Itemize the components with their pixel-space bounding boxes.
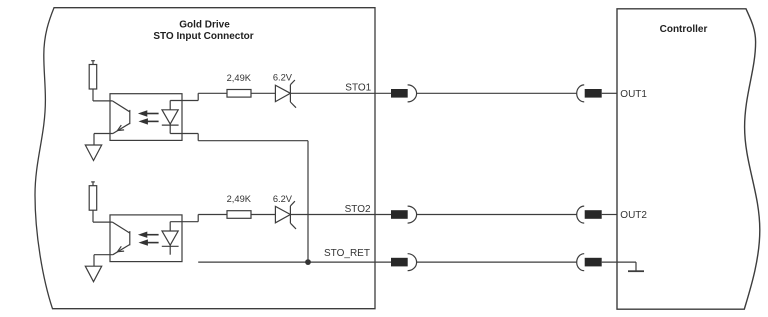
connector socket row 1 (right) bbox=[577, 85, 602, 102]
wire into controller OUT1 bbox=[602, 92, 617, 94]
wire cable row 3 bbox=[416, 261, 577, 263]
svg-text:Controller: Controller bbox=[660, 24, 708, 35]
connector pin plug row 3 (left) bbox=[391, 254, 417, 271]
LED D1 (inside U1) bbox=[162, 101, 179, 134]
wire cable row 2 bbox=[416, 214, 577, 216]
wire D1 anode to STO1 line bbox=[170, 93, 198, 100]
zener diode 6.2V (channel 2) bbox=[275, 201, 296, 229]
ground symbol in controller bbox=[628, 270, 644, 272]
wire cable row 1 bbox=[416, 92, 577, 94]
svg-text:6.2V: 6.2V bbox=[273, 194, 293, 204]
wire U1 emitter to ground arrow bbox=[94, 134, 113, 146]
svg-text:STO Input Connector: STO Input Connector bbox=[153, 31, 253, 42]
svg-text:STO2: STO2 bbox=[345, 204, 371, 215]
zener diode 6.2V (channel 1) bbox=[275, 80, 296, 108]
title Gold Drive STO Input Connector bbox=[153, 19, 253, 42]
wire D2 anode to STO2 line bbox=[170, 215, 198, 222]
wire U2 emitter to ground arrow bbox=[94, 255, 113, 267]
LED D2 (inside U2) bbox=[162, 222, 179, 255]
title Controller bbox=[660, 24, 708, 35]
connector pin plug row 1 (left) bbox=[391, 85, 417, 102]
junction node on STO_RET bbox=[305, 259, 311, 265]
resistor R1 (vertical, channel 1) bbox=[89, 61, 97, 101]
svg-text:STO_RET: STO_RET bbox=[324, 248, 370, 259]
svg-text:STO1: STO1 bbox=[345, 83, 371, 94]
connector socket row 3 (right) bbox=[577, 254, 602, 271]
optocoupler U2 box bbox=[110, 215, 182, 262]
wire zener to connector, node STO1 bbox=[290, 92, 391, 94]
svg-text:OUT2: OUT2 bbox=[620, 210, 647, 221]
svg-text:Gold Drive: Gold Drive bbox=[179, 19, 230, 30]
optocoupler U1 box bbox=[110, 94, 182, 141]
wire STO_RET line bbox=[198, 261, 391, 263]
svg-text:2,49K: 2,49K bbox=[227, 194, 252, 204]
wire STO_RET into controller bbox=[602, 262, 636, 271]
svg-text:6.2V: 6.2V bbox=[273, 73, 293, 83]
wire R2 to optocoupler U2 bbox=[93, 221, 112, 223]
wire STO2 to resistor 2,49K bbox=[198, 214, 227, 216]
light arrows of U2 bbox=[138, 232, 159, 246]
wire zener to connector, node STO2 bbox=[290, 214, 391, 216]
wire STO1 to resistor 2,49K bbox=[198, 92, 227, 94]
Gold Drive box outline bbox=[35, 8, 375, 309]
wire resistor to zener bbox=[251, 92, 275, 94]
Controller box outline bbox=[617, 9, 760, 309]
light arrows of U1 bbox=[138, 110, 159, 124]
wire R1 to optocoupler U1 bbox=[93, 100, 112, 102]
wire into controller OUT2 bbox=[602, 214, 617, 216]
ground arrow channel 2 bbox=[85, 266, 101, 282]
svg-text:OUT1: OUT1 bbox=[620, 89, 647, 100]
connector socket row 2 (right) bbox=[577, 206, 602, 223]
resistor R2 (vertical, channel 2) bbox=[89, 182, 97, 222]
connector pin plug row 2 (left) bbox=[391, 206, 417, 223]
svg-text:2,49K: 2,49K bbox=[227, 73, 252, 83]
resistor 2,49K (channel 2) bbox=[227, 211, 251, 219]
wire D1 cathode return to STO_RET bbox=[170, 134, 308, 263]
transistor Q2 (phototransistor of U2) bbox=[112, 222, 129, 255]
ground arrow channel 1 bbox=[85, 145, 101, 161]
transistor Q1 (phototransistor of U1) bbox=[112, 101, 129, 134]
wire resistor to zener channel 2 bbox=[251, 214, 275, 216]
resistor 2,49K (channel 1) bbox=[227, 90, 251, 98]
